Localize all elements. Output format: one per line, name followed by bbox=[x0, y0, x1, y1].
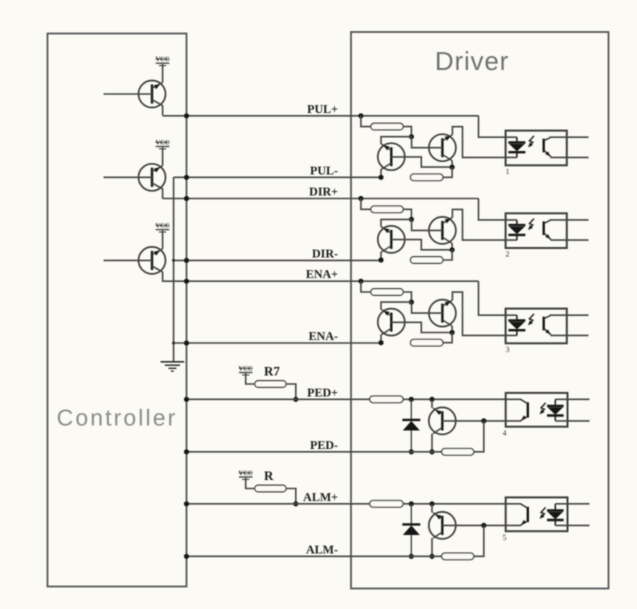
Q3 base stub bbox=[104, 259, 153, 261]
wire DIR- line bbox=[174, 259, 381, 261]
svg-text:ENA+: ENA+ bbox=[306, 267, 338, 281]
emitter resistor R4e bbox=[442, 449, 474, 456]
wire Q1 emitter to VCC bbox=[162, 64, 164, 82]
node Q3b collector junction bbox=[450, 330, 455, 335]
svg-text:R7: R7 bbox=[264, 364, 280, 379]
U3 phototransistor bbox=[544, 315, 551, 335]
node PED+ at controller edge bbox=[184, 397, 189, 402]
wire Q5 emitter up bbox=[431, 504, 433, 513]
transistor Q3 bbox=[139, 247, 166, 274]
wire row2 resistor to base node bbox=[403, 209, 411, 219]
node DIR- at controller edge bbox=[184, 258, 189, 263]
node Q4 collector on rail bbox=[429, 449, 434, 454]
svg-text:3: 3 bbox=[506, 345, 510, 354]
svg-text:VCC: VCC bbox=[239, 470, 253, 477]
Q2 collector diagonal bbox=[152, 183, 163, 189]
node Q3a collector on rail bbox=[378, 340, 383, 345]
node base/riser junction bbox=[481, 418, 486, 423]
optocoupler U2 box bbox=[506, 213, 567, 248]
transistor Q2 bbox=[139, 164, 166, 191]
U2 light arrow bbox=[528, 219, 534, 231]
wire row3 junction to Qa emitter bbox=[381, 302, 411, 309]
svg-text:DIR-: DIR- bbox=[312, 246, 338, 260]
svg-text:R: R bbox=[264, 468, 274, 483]
node transistor emitter top bbox=[429, 397, 434, 402]
svg-text:PED-: PED- bbox=[310, 438, 338, 452]
Q1 collector diagonal bbox=[152, 100, 163, 106]
node ENA- at controller edge bbox=[184, 340, 189, 345]
node base/riser junction bbox=[481, 523, 486, 528]
wire row2 junction to Qa emitter bbox=[381, 219, 411, 226]
svg-text:Controller: Controller bbox=[57, 405, 178, 431]
driver box bbox=[351, 32, 609, 589]
resistor input PED+ bbox=[370, 396, 403, 403]
U4 LED bbox=[547, 399, 564, 421]
node diode top bbox=[409, 397, 414, 402]
wire row1 junction to Qa emitter bbox=[381, 137, 411, 144]
svg-text:PED+: PED+ bbox=[307, 385, 338, 399]
emitter resistor R5e bbox=[442, 553, 474, 560]
svg-text:1: 1 bbox=[506, 167, 510, 176]
wire rail riser bbox=[474, 525, 484, 556]
U4 phototransistor bbox=[521, 399, 528, 420]
U3 LED bbox=[508, 315, 525, 335]
wire ENA- line bbox=[174, 342, 381, 344]
wire ENA+ line bbox=[163, 280, 479, 282]
node row3 base junction bbox=[409, 300, 414, 305]
node diode bottom bbox=[409, 449, 414, 454]
svg-text:VCC: VCC bbox=[155, 140, 169, 147]
wire U1 output emitter bbox=[551, 156, 589, 158]
wire Q3b base to junction bbox=[412, 303, 443, 313]
wire PUL+ line bbox=[163, 115, 479, 117]
transistor Q4 bbox=[429, 407, 456, 434]
wire PED- line bbox=[187, 451, 442, 453]
svg-text:Driver: Driver bbox=[435, 46, 509, 76]
node DIR- junction on return wire bbox=[172, 259, 175, 262]
wire row3 resistor to base node bbox=[403, 292, 411, 302]
node PUL- at controller edge bbox=[184, 175, 189, 180]
Q3b collector diagonal bbox=[442, 320, 452, 326]
wire U5 cathode out bbox=[555, 524, 589, 526]
optocoupler U4 box bbox=[506, 393, 568, 427]
Q2 base stub bbox=[104, 176, 153, 178]
node ALM+ at controller edge bbox=[184, 501, 189, 506]
transistor Q1a bbox=[378, 143, 405, 170]
wire row1 PUL+ drop to resistor bbox=[361, 116, 371, 127]
transistor Q2a bbox=[378, 226, 405, 253]
svg-text:VCC: VCC bbox=[155, 56, 169, 63]
wire row2 PUL+ drop to resistor bbox=[361, 199, 371, 210]
wire Q4 emitter up bbox=[431, 399, 433, 408]
resistor R1b bbox=[410, 174, 443, 181]
U4 light arrow bbox=[540, 403, 546, 415]
svg-text:PUL+: PUL+ bbox=[307, 102, 338, 116]
node Q5 collector on rail bbox=[429, 554, 434, 559]
wire R7 to line bbox=[286, 384, 296, 399]
node transistor emitter top bbox=[429, 501, 434, 506]
wire U4 cathode out bbox=[555, 420, 589, 422]
wire PUL- line bbox=[174, 176, 381, 178]
wire Q2a base step bbox=[391, 240, 452, 250]
node row1 base junction bbox=[409, 134, 414, 139]
node PED- at controller edge bbox=[184, 449, 189, 454]
node PUL+ driver junction bbox=[358, 113, 363, 118]
ground bbox=[161, 361, 185, 363]
wire VCC to R bbox=[246, 478, 255, 489]
node ENA+ at controller edge bbox=[184, 279, 189, 284]
node Q2b collector junction bbox=[450, 247, 455, 252]
svg-text:ALM+: ALM+ bbox=[303, 490, 338, 504]
wire Q1 collector down bbox=[162, 105, 164, 115]
resistor R7 bbox=[255, 381, 286, 388]
node PUL+ at controller edge bbox=[184, 113, 189, 118]
transistor Q1 bbox=[139, 81, 166, 108]
wire R to line bbox=[286, 489, 296, 504]
wire Q3a collector down bbox=[381, 328, 391, 335]
svg-text:2: 2 bbox=[506, 250, 510, 259]
resistor R3b bbox=[410, 339, 443, 346]
wire U5 anode out bbox=[555, 503, 589, 505]
wire Q2b base to junction bbox=[412, 220, 443, 230]
wire row3 PUL+ drop to resistor bbox=[361, 281, 371, 292]
node DIR+ at controller edge bbox=[184, 196, 189, 201]
wire rail riser bbox=[474, 421, 484, 452]
wire Q2 collector down bbox=[162, 189, 164, 199]
transistor Q3a bbox=[378, 309, 405, 336]
wire Q2a collector down bbox=[381, 246, 391, 253]
optocoupler U3 box bbox=[506, 309, 567, 344]
node R junction bbox=[293, 501, 298, 506]
Q2b emitter diagonal bbox=[442, 217, 452, 223]
wire DIR+ line bbox=[163, 198, 479, 200]
resistor R2b bbox=[410, 257, 443, 264]
resistor R bbox=[255, 485, 286, 492]
svg-text:VCC: VCC bbox=[155, 223, 169, 230]
wire rail riser row2 bbox=[443, 250, 452, 260]
Q2b collector diagonal bbox=[442, 237, 452, 243]
wire U1 output collector bbox=[550, 136, 589, 138]
wire Q1b emitter to opto LED cathode bbox=[452, 127, 517, 158]
wire rail riser row1 bbox=[443, 167, 452, 177]
svg-text:4: 4 bbox=[503, 428, 507, 437]
Q3 collector diagonal bbox=[152, 266, 163, 272]
U2 phototransistor bbox=[544, 220, 551, 240]
wire Q4 collector down bbox=[433, 428, 442, 434]
optocoupler U1 box bbox=[506, 131, 567, 166]
resistor R3a bbox=[371, 289, 403, 296]
U5 phototransistor bbox=[521, 504, 528, 525]
wire Q3 emitter to VCC bbox=[162, 230, 164, 248]
svg-text:PUL-: PUL- bbox=[310, 163, 338, 177]
node row2 base junction bbox=[409, 217, 414, 222]
wire U3 output collector bbox=[550, 314, 589, 316]
node R7 junction bbox=[293, 397, 298, 402]
Q1 base stub bbox=[104, 93, 153, 95]
svg-text:ALM-: ALM- bbox=[306, 542, 338, 556]
svg-text:DIR+: DIR+ bbox=[309, 185, 338, 199]
Q3b emitter diagonal bbox=[442, 300, 452, 306]
node Q2a collector on rail bbox=[378, 257, 383, 262]
node ENA+ driver junction bbox=[358, 279, 363, 284]
wire Q5 collector down bbox=[433, 532, 442, 538]
Q1b collector diagonal bbox=[442, 154, 452, 160]
U5 LED bbox=[547, 504, 564, 526]
controller box bbox=[48, 34, 187, 587]
transistor Q5 bbox=[429, 512, 456, 539]
wire Q1a base step bbox=[391, 157, 452, 167]
node ENA- junction on return wire bbox=[172, 342, 175, 345]
U1 phototransistor bbox=[544, 137, 551, 157]
node diode bottom bbox=[409, 554, 414, 559]
wire VCC to R7 bbox=[246, 373, 255, 384]
wire Q2 emitter to VCC bbox=[162, 147, 164, 165]
resistor R2a bbox=[371, 206, 403, 213]
wire Q3a base step bbox=[391, 322, 452, 332]
wire PUL+ to opto LED anode bbox=[479, 116, 517, 137]
node DIR+ driver junction bbox=[358, 196, 363, 201]
node Q1b collector junction bbox=[450, 165, 455, 170]
wire row1 resistor to base node bbox=[403, 127, 411, 137]
wire Q3 collector down bbox=[162, 272, 164, 282]
transistor Q3b bbox=[429, 300, 456, 327]
wire ENA+ to opto LED anode bbox=[479, 281, 517, 315]
U2 LED bbox=[508, 220, 525, 240]
wire Q5 base line bbox=[442, 524, 521, 526]
node diode top bbox=[409, 501, 414, 506]
wire U2 output emitter bbox=[551, 239, 589, 241]
wire U2 output collector bbox=[550, 219, 589, 221]
wire Q4 base line bbox=[442, 420, 521, 422]
wire DIR+ to opto LED anode bbox=[479, 199, 517, 220]
svg-text:VCC: VCC bbox=[239, 366, 253, 373]
U1 LED bbox=[508, 137, 525, 157]
wire Q1b base to junction bbox=[412, 138, 443, 148]
resistor R1a bbox=[371, 123, 403, 130]
optocoupler U5 box bbox=[506, 497, 568, 531]
clamp diode D2 bbox=[402, 504, 420, 557]
wire PED+ line bbox=[187, 398, 370, 400]
wire Q2b emitter to opto LED cathode bbox=[452, 209, 517, 240]
wire ALM- line bbox=[187, 555, 442, 557]
transistor Q1b bbox=[429, 134, 456, 161]
Q1b emitter diagonal bbox=[442, 135, 452, 141]
node Q1a collector on rail bbox=[378, 175, 383, 180]
wire rail riser row3 bbox=[443, 333, 452, 343]
U5 light arrow bbox=[540, 507, 546, 519]
svg-text:5: 5 bbox=[503, 533, 507, 542]
U1 light arrow bbox=[528, 136, 534, 148]
node ALM- at controller edge bbox=[184, 554, 189, 559]
wire ALM+ line bbox=[187, 503, 370, 505]
common return wire bbox=[173, 177, 175, 361]
wire Q1a collector down bbox=[381, 163, 391, 170]
transistor Q2b bbox=[429, 217, 456, 244]
clamp diode D1 bbox=[402, 399, 420, 452]
svg-text:ENA-: ENA- bbox=[309, 329, 338, 343]
wire U4 anode out bbox=[555, 398, 589, 400]
wire Q3b emitter to opto LED cathode bbox=[452, 292, 517, 335]
wire U3 output emitter bbox=[551, 334, 589, 336]
U3 light arrow bbox=[528, 314, 534, 326]
resistor input ALM+ bbox=[370, 501, 403, 508]
